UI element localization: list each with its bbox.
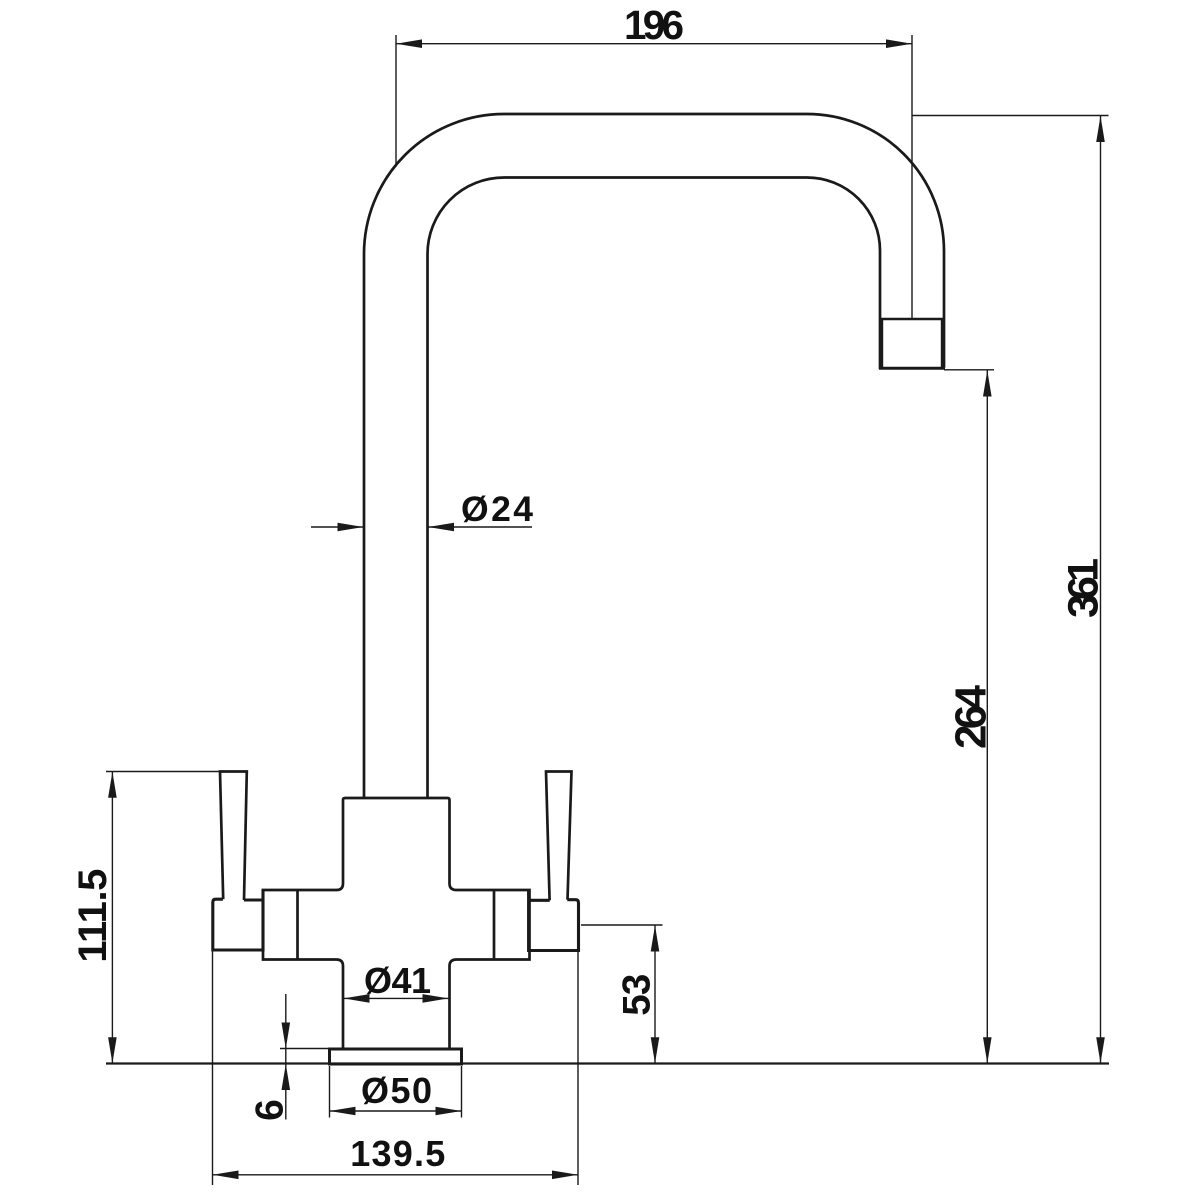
arrow 6 bottom pointing up (282, 1064, 291, 1090)
arrow 139.5 right (552, 1171, 578, 1180)
right valve cap (529, 889, 579, 950)
left arm joint line (296, 890, 299, 960)
arrow diameter41 left (344, 994, 370, 1003)
dim 139.5 line (213, 1174, 579, 1176)
faucet body with cross arms and neck (263, 798, 530, 1049)
dim diameter50 left extension line (329, 1066, 331, 1118)
svg-text:Ø24: Ø24 (461, 489, 533, 529)
svg-text:111.5: 111.5 (71, 869, 115, 963)
dim 196 line (396, 43, 912, 45)
arrow diameter24 right pointing left (428, 523, 454, 532)
arrow 6 top pointing down (282, 1023, 291, 1049)
dim 139.5 left extension line (212, 951, 214, 1185)
arrow 361 top (1096, 116, 1105, 142)
svg-text:361: 361 (1060, 558, 1108, 618)
aerator right side (941, 319, 944, 369)
dim diameter50 right extension line (461, 1066, 463, 1118)
arrow diameter50 right (436, 1107, 462, 1116)
svg-text:196: 196 (624, 2, 684, 48)
dim diameter24 left segment (311, 526, 363, 528)
arrow 264 bottom (983, 1037, 992, 1063)
dim diameter24 right segment (429, 526, 533, 528)
spout outer outline (364, 114, 944, 799)
arrow 264 top (983, 371, 992, 397)
right lever handle (546, 772, 572, 901)
right arm joint line (493, 890, 496, 960)
arrow 196 right (886, 39, 912, 48)
dim 264 top extension line (944, 369, 994, 371)
dim diameter50 line (330, 1110, 462, 1112)
dim 196 right extension line (911, 35, 913, 319)
svg-text:Ø41: Ø41 (364, 960, 431, 1001)
left valve cap (213, 889, 263, 950)
dim 111.5 line (111, 772, 113, 1064)
spout inner outline (428, 178, 881, 800)
arrow 361 bottom (1096, 1037, 1105, 1063)
dim 196 left extension line (395, 35, 397, 167)
arrow 196 left (396, 39, 422, 48)
dim diameter41 line (344, 997, 449, 999)
dim 6 plate-top extension line (280, 1048, 330, 1050)
dim 361 top extension line (912, 115, 1109, 117)
dim 264 line (986, 371, 988, 1064)
arrow 53 bottom (651, 1037, 660, 1063)
countertop line (106, 1062, 1109, 1064)
dim 361 line (1100, 116, 1102, 1063)
left valve cap top-right segment (244, 898, 263, 901)
arrow diameter24 left pointing right (338, 523, 364, 532)
svg-text:6: 6 (248, 1099, 291, 1121)
aerator left side (880, 319, 883, 369)
svg-text:53: 53 (616, 974, 659, 1016)
dim 111.5 top extension line (106, 771, 221, 773)
dim 53 top extension line (581, 924, 663, 926)
base plate (330, 1049, 462, 1064)
aerator bottom (spout mouth) (879, 367, 945, 370)
svg-text:264: 264 (947, 684, 996, 749)
right valve cap top-left segment (529, 899, 550, 902)
dim 139.5 right extension line (577, 951, 579, 1185)
arrow diameter41 right (423, 994, 449, 1003)
arrow 111.5 bottom (108, 1037, 117, 1063)
dim 53 line (654, 926, 656, 1064)
dim 6 leader (285, 994, 287, 1120)
arrow 111.5 top (108, 772, 117, 798)
arrow 53 top (651, 926, 660, 952)
left lever handle (220, 772, 247, 901)
aerator top joint line (880, 318, 944, 321)
svg-text:Ø50: Ø50 (361, 1070, 432, 1111)
arrow diameter50 left (330, 1107, 356, 1116)
svg-text:139.5: 139.5 (350, 1133, 445, 1174)
arrow 139.5 left (213, 1171, 239, 1180)
